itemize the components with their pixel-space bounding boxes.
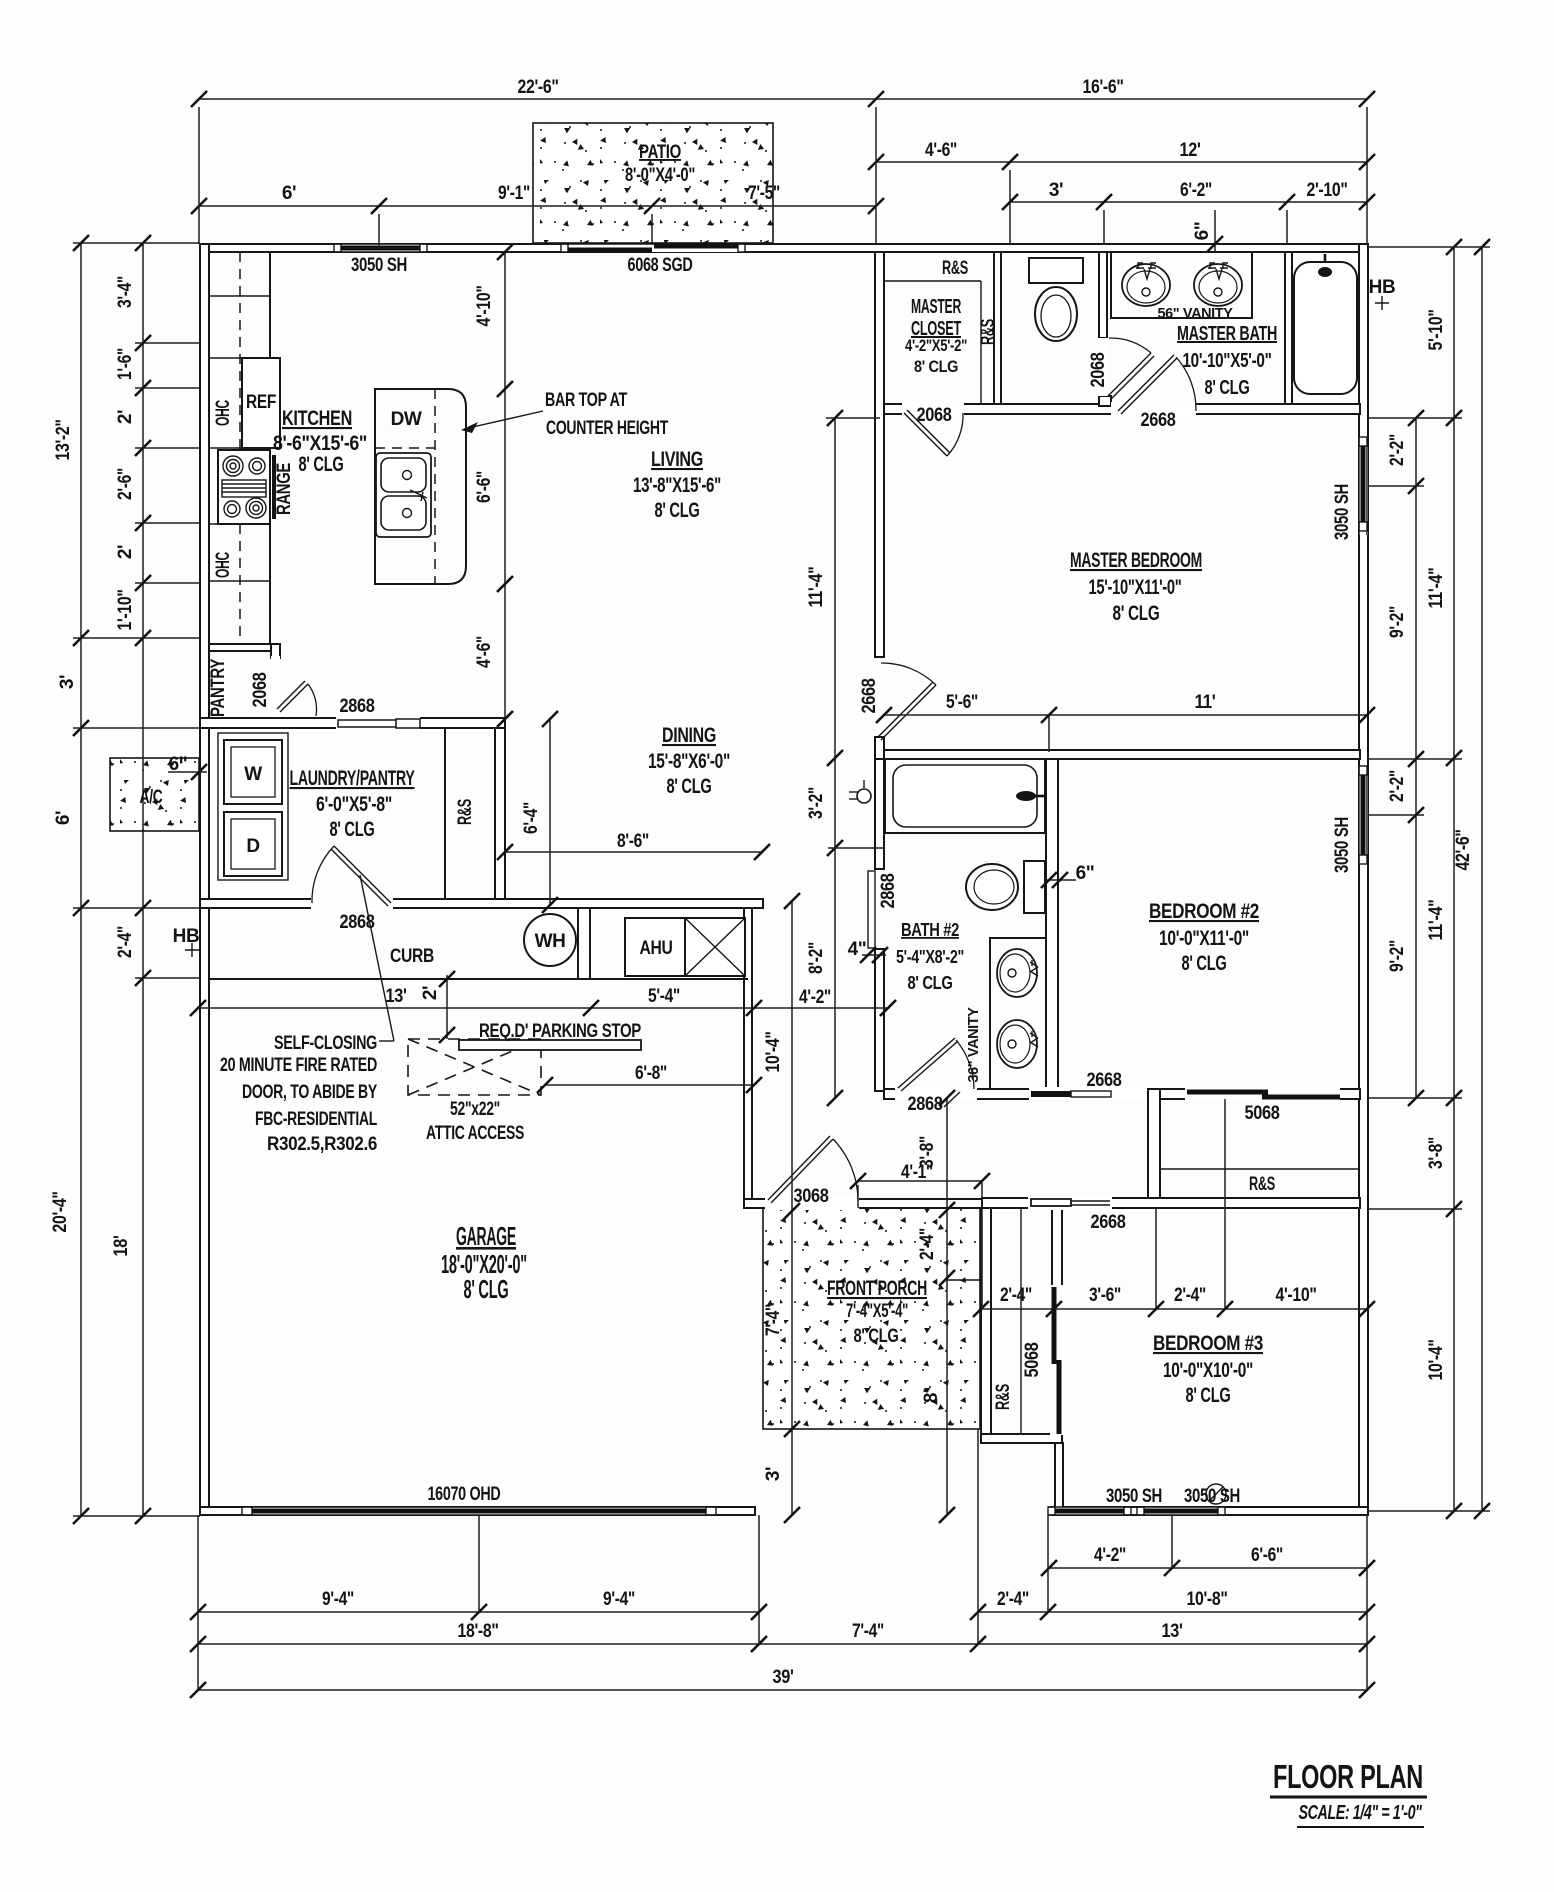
exterior wall left xyxy=(200,244,209,1515)
svg-text:3'-8": 3'-8" xyxy=(1426,1137,1447,1169)
svg-text:9'-2": 9'-2" xyxy=(1387,940,1408,972)
dim 39' xyxy=(190,1682,1375,1698)
2868 label leader xyxy=(944,1092,960,1107)
svg-text:10'-0"X10'-0": 10'-0"X10'-0" xyxy=(1163,1359,1253,1382)
svg-text:6'-6": 6'-6" xyxy=(1251,1545,1283,1566)
svg-text:11'-4": 11'-4" xyxy=(806,567,827,608)
hose bib HB left xyxy=(185,943,199,957)
dining vertical dim 6'-4" xyxy=(542,711,558,913)
svg-text:7'-4": 7'-4" xyxy=(763,1304,784,1336)
svg-text:8' CLG: 8' CLG xyxy=(330,818,375,841)
dim row 6' 9'-1" 7'-5" xyxy=(191,198,884,214)
svg-text:10'-4": 10'-4" xyxy=(1426,1340,1447,1381)
svg-text:2': 2' xyxy=(115,410,136,424)
svg-text:W: W xyxy=(244,764,262,785)
kitchen island / bar xyxy=(375,389,466,584)
foyer / bedroom3 wall band xyxy=(982,1198,1360,1208)
left extension lines xyxy=(73,243,200,1516)
laundry right wall xyxy=(495,728,505,899)
living vertical dim chain 4'-10"/6'-6"/4'-6" xyxy=(497,244,513,727)
dim 2' attic xyxy=(439,971,455,1043)
svg-text:8' CLG: 8' CLG xyxy=(914,357,958,376)
svg-text:2868: 2868 xyxy=(340,912,375,933)
svg-text:5'-4"X8'-2": 5'-4"X8'-2" xyxy=(896,947,964,967)
svg-text:DOOR, TO ABIDE BY: DOOR, TO ABIDE BY xyxy=(242,1082,378,1103)
svg-text:HB: HB xyxy=(1369,277,1396,298)
svg-text:6'-4": 6'-4" xyxy=(521,802,542,834)
svg-text:3050 SH: 3050 SH xyxy=(1106,1486,1162,1507)
svg-text:15'-8"X6'-0": 15'-8"X6'-0" xyxy=(648,750,730,773)
kitchen sink xyxy=(376,453,431,537)
bedroom3 dim row 2'-4" 3'-6" 2'-4" 4'-10" xyxy=(973,1301,1375,1317)
bedroom2 closet shelf line xyxy=(1160,1168,1359,1170)
dim row 18'-8" 7'-4" 13' xyxy=(190,1636,1375,1652)
range xyxy=(218,450,276,524)
master toilet xyxy=(1029,258,1083,341)
garage right vertical chain 10'-4"/7'-4"/3' xyxy=(784,893,800,1523)
svg-text:6": 6" xyxy=(169,754,188,775)
hall extension lines xyxy=(826,418,884,848)
bottom extension lines xyxy=(198,1429,1367,1690)
svg-text:4'-2"X5'-2": 4'-2"X5'-2" xyxy=(905,336,967,355)
svg-text:FRONT PORCH: FRONT PORCH xyxy=(827,1277,927,1300)
svg-text:2'-2": 2'-2" xyxy=(1387,434,1408,466)
dim 6'-8" xyxy=(537,1077,762,1093)
svg-text:8': 8' xyxy=(921,1389,942,1403)
bar top leader arrow xyxy=(461,411,543,433)
svg-text:2'-4": 2'-4" xyxy=(1174,1285,1206,1306)
svg-text:8' CLG: 8' CLG xyxy=(1113,602,1160,625)
svg-text:COUNTER HEIGHT: COUNTER HEIGHT xyxy=(546,418,669,439)
svg-text:REF: REF xyxy=(246,392,276,413)
svg-text:9'-1": 9'-1" xyxy=(498,183,530,204)
svg-text:16'-6": 16'-6" xyxy=(1083,77,1124,98)
door leaf master bedroom 2668 xyxy=(878,663,936,740)
svg-text:SCALE: 1/4" = 1'-0": SCALE: 1/4" = 1'-0" xyxy=(1299,1802,1423,1824)
bedroom3 left wall below closet xyxy=(1055,1443,1063,1515)
svg-text:10'-10"X5'-0": 10'-10"X5'-0" xyxy=(1183,350,1272,372)
svg-text:3'-6": 3'-6" xyxy=(1089,1285,1121,1306)
bedroom2 window 3050 SH xyxy=(1359,766,1368,864)
svg-text:3': 3' xyxy=(763,1467,784,1481)
front entry wall xyxy=(744,1199,982,1208)
bath2 4" dim xyxy=(860,947,888,963)
svg-text:6": 6" xyxy=(1076,863,1095,884)
opening bedroom2 pocket door 2668 xyxy=(1029,1087,1147,1101)
svg-text:4": 4" xyxy=(848,939,867,960)
svg-text:3': 3' xyxy=(57,675,78,689)
opening toilet room door 2068 xyxy=(1097,338,1109,396)
svg-text:3'-4": 3'-4" xyxy=(115,276,136,308)
svg-text:LIVING: LIVING xyxy=(651,448,703,471)
svg-text:8' CLG: 8' CLG xyxy=(1182,952,1227,975)
svg-text:56" VANITY: 56" VANITY xyxy=(1158,306,1234,322)
exterior wall bottom bedroom3 xyxy=(1052,1507,1368,1515)
door leaf master bath 2668 xyxy=(1118,355,1196,414)
svg-text:11': 11' xyxy=(1195,692,1216,713)
svg-text:5068: 5068 xyxy=(1245,1103,1280,1124)
bedroom3 3050 strike mark xyxy=(1206,1484,1226,1504)
svg-text:8'-6"X15'-6": 8'-6"X15'-6" xyxy=(273,432,367,455)
svg-text:1'-6": 1'-6" xyxy=(115,348,136,380)
svg-text:6': 6' xyxy=(282,183,296,204)
svg-text:18': 18' xyxy=(111,1236,132,1257)
svg-text:5'-6": 5'-6" xyxy=(946,692,978,713)
opening laundry-dining door 2868 (shown closed) xyxy=(336,716,420,730)
hall closet left wall xyxy=(981,1208,991,1443)
master suite bottom wall (closet/bath) xyxy=(884,404,1360,414)
svg-text:4'-2": 4'-2" xyxy=(1094,1545,1126,1566)
svg-text:4'-2": 4'-2" xyxy=(799,987,831,1008)
svg-text:SELF-CLOSING: SELF-CLOSING xyxy=(274,1033,377,1054)
svg-text:8' CLG: 8' CLG xyxy=(1205,377,1250,399)
svg-text:2'-4": 2'-4" xyxy=(1000,1285,1032,1306)
svg-text:KITCHEN: KITCHEN xyxy=(282,407,352,430)
dim 6" A/C xyxy=(168,764,207,780)
bath2 bottom wall band xyxy=(884,1089,1360,1099)
svg-text:6'-2": 6'-2" xyxy=(1180,180,1212,201)
svg-text:12': 12' xyxy=(1180,140,1201,161)
garage door opening 16070 OHD xyxy=(242,1507,716,1515)
bedroom2 closet left wall xyxy=(1148,1089,1160,1201)
svg-text:52"x22": 52"x22" xyxy=(450,1099,500,1120)
svg-text:OHC: OHC xyxy=(213,552,234,578)
svg-text:R&S: R&S xyxy=(1249,1174,1275,1195)
svg-text:3050 SH: 3050 SH xyxy=(1184,1486,1240,1507)
svg-text:20'-4": 20'-4" xyxy=(50,1192,71,1233)
dryer xyxy=(224,812,282,876)
svg-text:8'-0"X4'-0": 8'-0"X4'-0" xyxy=(625,165,695,186)
hall closet right wall upper xyxy=(1052,1208,1062,1288)
bath2 / bedroom2 wall xyxy=(1046,759,1058,1089)
left inner dim chain xyxy=(135,235,151,1524)
hose bib HB right xyxy=(1375,296,1389,310)
svg-text:DINING: DINING xyxy=(662,724,716,747)
master bedroom bottom wall xyxy=(884,750,1360,759)
svg-text:8' CLG: 8' CLG xyxy=(464,1274,509,1304)
svg-text:2668: 2668 xyxy=(1087,1070,1122,1091)
bath2 tub xyxy=(885,759,1045,833)
opening bath2 hall door 2868 xyxy=(873,870,886,948)
svg-text:2': 2' xyxy=(115,545,136,559)
right inner dim chain 2'-2"/9'-2" xyxy=(1408,410,1424,1106)
opening pantry door 2068 xyxy=(271,656,280,716)
svg-text:R&S: R&S xyxy=(455,799,476,825)
curb line xyxy=(209,978,748,980)
svg-text:BEDROOM #2: BEDROOM #2 xyxy=(1149,900,1259,923)
svg-text:8'-6": 8'-6" xyxy=(617,831,649,852)
dim 6" vanity offset xyxy=(1207,210,1223,252)
svg-text:2'-2": 2'-2" xyxy=(1387,770,1408,802)
svg-text:18'-8": 18'-8" xyxy=(458,1621,499,1642)
svg-text:4'-10": 4'-10" xyxy=(1276,1285,1317,1306)
svg-text:9'-4": 9'-4" xyxy=(322,1589,354,1610)
svg-text:16070 OHD: 16070 OHD xyxy=(428,1484,501,1505)
bedroom3 extension lines xyxy=(947,1099,1225,1309)
pantry top wall xyxy=(209,644,280,651)
svg-text:LAUNDRY/PANTRY: LAUNDRY/PANTRY xyxy=(290,767,415,790)
svg-text:2068: 2068 xyxy=(917,405,952,426)
svg-text:6'-6": 6'-6" xyxy=(474,471,495,503)
right extension lines xyxy=(1368,247,1490,1511)
svg-text:3'-8": 3'-8" xyxy=(917,1136,938,1168)
svg-text:4'-10": 4'-10" xyxy=(474,286,495,327)
svg-text:2'-6": 2'-6" xyxy=(115,468,136,500)
bedroom3 window 3050 SH left xyxy=(1048,1507,1131,1515)
hall closet bottom wall xyxy=(981,1434,1062,1443)
svg-text:2'-4": 2'-4" xyxy=(997,1589,1029,1610)
svg-text:ATTIC ACCESS: ATTIC ACCESS xyxy=(426,1123,524,1144)
svg-text:R&S: R&S xyxy=(993,1384,1014,1410)
svg-text:6": 6" xyxy=(1192,222,1213,241)
self closing leader xyxy=(360,875,394,1041)
dim row 4'-6" 12' xyxy=(868,154,1375,170)
toilet room door jamb xyxy=(1099,396,1111,406)
svg-text:BATH #2: BATH #2 xyxy=(901,920,959,940)
foyer vertical chain 3'-8"/2'-4"/8' xyxy=(939,1090,955,1523)
right middle dim chain xyxy=(1446,239,1462,1519)
opening bedroom3 door 2668 (shown closed) xyxy=(1028,1196,1112,1210)
svg-text:3050 SH: 3050 SH xyxy=(351,255,407,276)
water heater WH xyxy=(524,914,576,966)
master bedroom window 3050 SH xyxy=(1359,437,1368,535)
svg-text:9'-2": 9'-2" xyxy=(1387,606,1408,638)
svg-text:AHU: AHU xyxy=(640,938,673,959)
opening master closet door 2068 xyxy=(902,402,964,416)
svg-text:GARAGE: GARAGE xyxy=(456,1221,516,1251)
master vanity counter xyxy=(1111,252,1252,318)
svg-text:22'-6": 22'-6" xyxy=(518,77,559,98)
svg-text:A/C: A/C xyxy=(140,787,163,808)
opening master bath door 2668 xyxy=(1111,402,1196,416)
master closet shelf lines xyxy=(884,281,981,404)
svg-text:2'-4": 2'-4" xyxy=(917,1228,938,1260)
svg-text:6': 6' xyxy=(53,811,74,825)
patio slab xyxy=(533,123,773,243)
svg-text:2'-10": 2'-10" xyxy=(1307,180,1348,201)
door leaf front 3068 xyxy=(768,1136,858,1208)
svg-text:8' CLG: 8' CLG xyxy=(854,1326,899,1347)
svg-text:8' CLG: 8' CLG xyxy=(299,453,344,476)
dim 16'-6" top xyxy=(876,91,1375,107)
svg-text:2868: 2868 xyxy=(878,874,899,909)
svg-text:3': 3' xyxy=(1049,180,1063,201)
svg-text:2'-4": 2'-4" xyxy=(115,926,136,958)
svg-text:5068: 5068 xyxy=(1022,1343,1043,1378)
garage right wall xyxy=(744,899,752,1208)
bath2 left wall lower xyxy=(875,949,884,1091)
bath2 left wall upper xyxy=(875,759,884,869)
door leaf toilet room 2068 xyxy=(1108,338,1154,399)
refrigerator REF xyxy=(242,358,280,448)
svg-text:8'-2": 8'-2" xyxy=(806,942,827,974)
svg-text:4'-6": 4'-6" xyxy=(925,140,957,161)
opening laundry-hall door 2868 xyxy=(311,897,393,910)
svg-text:R&S: R&S xyxy=(942,258,968,279)
svg-text:3050 SH: 3050 SH xyxy=(1332,817,1353,873)
svg-text:36" VANITY: 36" VANITY xyxy=(966,1007,982,1083)
svg-text:DW: DW xyxy=(391,409,422,430)
svg-text:6'-0"X5'-8": 6'-0"X5'-8" xyxy=(316,793,392,816)
svg-text:3'-2": 3'-2" xyxy=(806,787,827,819)
door leaf bath2 south 2868 xyxy=(898,1038,974,1091)
svg-text:10'-4": 10'-4" xyxy=(763,1032,784,1073)
svg-text:R302.5,R302.6: R302.5,R302.6 xyxy=(267,1134,377,1155)
svg-text:WH: WH xyxy=(535,931,566,952)
master tub xyxy=(1294,254,1357,394)
svg-text:BEDROOM #3: BEDROOM #3 xyxy=(1153,1332,1263,1355)
svg-text:REQ.D' PARKING STOP: REQ.D' PARKING STOP xyxy=(479,1021,642,1042)
door leaf pantry 2068 xyxy=(277,681,317,716)
svg-text:PATIO: PATIO xyxy=(639,142,681,163)
svg-text:2668: 2668 xyxy=(859,679,880,714)
title underlines xyxy=(1270,1797,1427,1827)
WH alcove wall xyxy=(578,908,590,979)
svg-text:1'-10": 1'-10" xyxy=(115,590,136,631)
svg-text:9'-4": 9'-4" xyxy=(603,1589,635,1610)
svg-text:7'-4": 7'-4" xyxy=(852,1621,884,1642)
svg-text:8' CLG: 8' CLG xyxy=(908,973,953,993)
svg-text:HB: HB xyxy=(173,926,200,947)
svg-text:FBC-RESIDENTIAL: FBC-RESIDENTIAL xyxy=(255,1109,378,1130)
air handler AHU xyxy=(625,918,745,976)
svg-text:2868: 2868 xyxy=(908,1094,943,1115)
svg-text:8' CLG: 8' CLG xyxy=(1186,1384,1231,1407)
toilet room left wall xyxy=(994,252,1001,404)
svg-text:MASTER: MASTER xyxy=(911,296,962,318)
svg-text:8' CLG: 8' CLG xyxy=(667,775,712,798)
dim 8'-6" dining xyxy=(497,844,770,860)
svg-text:10'-8": 10'-8" xyxy=(1187,1589,1228,1610)
central wall living/master xyxy=(875,252,884,657)
garage dim row 13' 5'-4" 4'-2" xyxy=(190,1000,896,1016)
laundry R&S shelf lines xyxy=(445,728,495,899)
svg-text:7'-5": 7'-5" xyxy=(748,183,780,204)
svg-text:15'-10"X11'-0": 15'-10"X11'-0" xyxy=(1089,576,1182,599)
dim row 4'-2" 6'-6" bottom xyxy=(1041,1560,1375,1576)
A/C pad xyxy=(110,758,199,831)
svg-text:10'-0"X11'-0": 10'-0"X11'-0" xyxy=(1159,927,1249,950)
kitchen cabinet run xyxy=(209,252,270,644)
door leaf laundry 2868 xyxy=(312,846,391,906)
bedroom3 window 3050 SH right xyxy=(1137,1507,1225,1515)
svg-text:11'-4": 11'-4" xyxy=(1426,568,1447,609)
svg-text:42'-6": 42'-6" xyxy=(1453,830,1474,871)
svg-text:8' CLG: 8' CLG xyxy=(655,499,700,522)
kitchen window 3050 SH xyxy=(334,244,427,252)
svg-text:20 MINUTE FIRE RATED: 20 MINUTE FIRE RATED xyxy=(220,1055,377,1076)
svg-text:MASTER BEDROOM: MASTER BEDROOM xyxy=(1070,549,1202,572)
svg-text:2068: 2068 xyxy=(250,673,271,708)
svg-text:7'-4"X5'-4": 7'-4"X5'-4" xyxy=(846,1301,908,1322)
master vanity sinks xyxy=(1122,263,1242,306)
svg-text:BAR TOP AT: BAR TOP AT xyxy=(545,390,628,411)
svg-text:MASTER BATH: MASTER BATH xyxy=(1177,323,1277,345)
dim row 9'-4" 9'-4" / 2'-4" 10'-8" xyxy=(190,1604,1375,1620)
dim 5'-6" 11' master bedroom xyxy=(876,707,1375,752)
svg-text:13'-2": 13'-2" xyxy=(53,420,74,461)
left outer dim chain xyxy=(73,235,89,1524)
svg-text:13': 13' xyxy=(386,986,407,1007)
svg-text:13': 13' xyxy=(1162,1621,1183,1642)
master tub alcove wall xyxy=(1285,252,1292,404)
svg-text:39': 39' xyxy=(773,1667,794,1688)
dim row 3' 6'-2" 2'-10" xyxy=(1002,194,1375,210)
dim 22'-6" top xyxy=(191,91,884,107)
pantry right wall stub xyxy=(271,644,280,658)
svg-text:13'-8"X15'-6": 13'-8"X15'-6" xyxy=(633,474,721,497)
svg-text:6068 SGD: 6068 SGD xyxy=(628,255,693,276)
opening front door 3068 xyxy=(765,1197,859,1210)
bath2 toilet xyxy=(966,861,1045,913)
svg-text:D: D xyxy=(246,836,259,857)
laundry top wall xyxy=(200,718,505,728)
top extension lines xyxy=(199,107,1367,246)
opening bath2 south door 2868 xyxy=(895,1087,977,1101)
bath2 6" dim xyxy=(1041,872,1076,888)
svg-text:RANGE: RANGE xyxy=(274,463,295,515)
sliding glass door 6068 SGD xyxy=(561,244,745,252)
opening master bedroom door 2668 xyxy=(873,658,886,736)
svg-text:5'-4": 5'-4" xyxy=(648,986,680,1007)
svg-text:6'-8": 6'-8" xyxy=(635,1063,667,1084)
attic access panel xyxy=(408,1039,541,1095)
svg-text:CURB: CURB xyxy=(390,946,434,967)
svg-text:4'-6": 4'-6" xyxy=(474,636,495,668)
svg-text:3050 SH: 3050 SH xyxy=(1332,484,1353,540)
bedroom2 closet bypass doors 5068 xyxy=(1185,1087,1340,1101)
parking stop xyxy=(459,1040,641,1050)
door leaf master closet 2068 xyxy=(904,410,963,456)
toilet room right wall xyxy=(1099,252,1107,338)
svg-text:FLOOR PLAN: FLOOR PLAN xyxy=(1273,1758,1423,1795)
svg-text:OHC: OHC xyxy=(213,400,234,426)
AHU closet left line xyxy=(589,908,591,979)
hall vertical dim chain 11'-4"/3'-2"/8'-2" xyxy=(827,410,843,1106)
front porch slab xyxy=(763,1208,980,1429)
hall closet inner line xyxy=(1020,1208,1022,1434)
svg-text:5'-10": 5'-10" xyxy=(1426,310,1447,351)
svg-text:3068: 3068 xyxy=(794,1186,829,1207)
svg-text:PANTRY: PANTRY xyxy=(208,658,229,717)
bath2 shower valve xyxy=(849,780,871,803)
exterior wall bottom garage xyxy=(200,1507,755,1515)
right outer dim 42'-6" xyxy=(1474,239,1490,1519)
dim 4'-1" foyer xyxy=(850,1173,990,1189)
hall closet bypass doors 5068 xyxy=(1050,1285,1064,1435)
bath2 vanity counter xyxy=(990,938,1046,1089)
washer xyxy=(218,733,288,880)
exterior wall right xyxy=(1359,244,1368,1515)
door leaf bath2 hall 2868 xyxy=(868,871,875,948)
svg-text:11'-4": 11'-4" xyxy=(1426,900,1447,941)
svg-text:R&S: R&S xyxy=(978,319,999,345)
exterior wall top xyxy=(200,244,1366,252)
svg-text:2': 2' xyxy=(420,986,441,1000)
bath2 vanity sinks xyxy=(997,949,1038,1068)
central wall stub below master door xyxy=(875,737,884,759)
svg-text:2868: 2868 xyxy=(340,696,375,717)
laundry bottom wall xyxy=(200,899,763,908)
svg-text:2068: 2068 xyxy=(1088,353,1109,388)
svg-text:2668: 2668 xyxy=(1091,1212,1126,1233)
svg-text:2668: 2668 xyxy=(1141,410,1176,431)
